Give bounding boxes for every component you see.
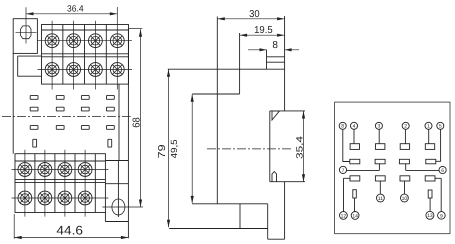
svg-text:14: 14 <box>352 213 358 219</box>
svg-text:10: 10 <box>402 196 408 202</box>
svg-text:7: 7 <box>342 168 345 174</box>
svg-text:4: 4 <box>353 124 356 130</box>
svg-text:44.6: 44.6 <box>56 223 83 237</box>
svg-text:5: 5 <box>439 124 442 130</box>
svg-text:8: 8 <box>272 40 278 51</box>
svg-text:19.5: 19.5 <box>254 25 273 36</box>
svg-text:11: 11 <box>378 196 383 202</box>
svg-text:3: 3 <box>378 124 381 130</box>
svg-text:68: 68 <box>132 117 143 128</box>
svg-text:36.4: 36.4 <box>67 4 84 14</box>
svg-text:30: 30 <box>249 9 260 20</box>
svg-text:1: 1 <box>427 124 430 130</box>
svg-text:2: 2 <box>404 124 407 130</box>
svg-text:6: 6 <box>441 168 444 174</box>
svg-text:8: 8 <box>341 124 344 130</box>
svg-text:79: 79 <box>157 144 168 159</box>
svg-text:9: 9 <box>440 213 443 219</box>
svg-text:49,5: 49,5 <box>169 139 179 158</box>
svg-text:35,4: 35,4 <box>295 136 305 159</box>
svg-text:13: 13 <box>427 213 433 219</box>
svg-text:12: 12 <box>341 213 347 219</box>
